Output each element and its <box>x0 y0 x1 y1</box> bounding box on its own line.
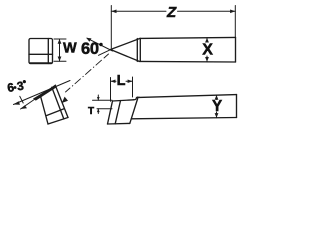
clearance angle line P2 <box>21 94 44 110</box>
rotated end view square <box>41 85 69 124</box>
rotated view inner divider near bottom <box>46 109 64 116</box>
top view tip top edge <box>113 100 134 101</box>
dimension Z arrow left <box>111 10 116 14</box>
clearance angle line P1 arrowhead <box>14 101 21 105</box>
side view tool point top edge <box>111 38 141 49</box>
dimension L line right part <box>126 80 133 82</box>
dimension L arrow right <box>128 80 133 84</box>
rotated view inner divider near right edge <box>52 87 64 119</box>
dimension T upper extension line <box>93 99 113 101</box>
side view grind line 1 <box>136 39 138 62</box>
top view tip left edge <box>108 101 113 124</box>
dimension T lower arrow line <box>97 109 99 114</box>
dimension L line left part <box>111 80 117 82</box>
top view tip inner grind line <box>115 101 120 124</box>
svg-text:X: X <box>202 41 213 58</box>
svg-text:Y: Y <box>212 98 222 115</box>
dimension L right extension line <box>132 77 134 97</box>
dimension Y arrow down <box>215 113 219 118</box>
dimension X vertical line upper <box>206 38 208 42</box>
dimension T upper arrow line <box>97 95 99 100</box>
dimension T lower extension line <box>97 108 112 110</box>
dimension X arrow up <box>205 38 209 43</box>
top view shank bottom edge <box>132 118 237 119</box>
top view tip right slant edge <box>130 98 138 124</box>
side view body top edge <box>140 37 236 38</box>
degree mark of 60 <box>99 43 102 46</box>
side view body right edge <box>235 37 237 62</box>
dimension W extension tick bottom <box>54 60 66 62</box>
dimension X arrow down <box>205 57 209 62</box>
end view inner horizontal divider <box>29 53 53 55</box>
dimension W extension tick top <box>54 38 66 40</box>
60 degree upper-left extension line with arrow <box>87 38 113 51</box>
dimension L arrow left <box>111 80 116 84</box>
svg-text:L: L <box>117 73 126 89</box>
top view shoulder hump <box>134 97 140 100</box>
dimension Y vertical line upper <box>216 95 218 100</box>
dimension Z left extension line <box>110 6 112 49</box>
dimension Z horizontal line left part <box>111 10 166 12</box>
clearance angle line P1 long <box>14 81 71 105</box>
top view tip bottom edge <box>108 122 130 125</box>
dimension Z arrow right <box>230 10 235 14</box>
top view shank top edge <box>140 95 237 98</box>
rotated view ground face black wedge <box>33 85 56 100</box>
dimension W vertical line <box>59 39 61 61</box>
centerline arrowhead at rotated view <box>62 97 68 103</box>
svg-text:T: T <box>88 106 94 117</box>
60 degree lower-left extension line <box>99 49 113 55</box>
centerline dash-dot from tool point to rotated view <box>66 54 109 92</box>
end view inner vertical divider <box>47 39 49 64</box>
dimension Y arrow up <box>215 95 219 100</box>
top view shank right edge <box>236 95 238 118</box>
side view grind line 2 <box>139 38 141 61</box>
dimension W arrow down <box>58 57 62 62</box>
svg-text:Z: Z <box>166 4 177 21</box>
dimension Z right extension line <box>234 6 236 38</box>
dimension L left extension line <box>110 78 112 102</box>
side view tool point bottom edge <box>111 50 140 62</box>
label 6-3 degrees <box>6 78 27 95</box>
side view body bottom edge <box>139 60 236 63</box>
end view square outline <box>29 39 53 64</box>
clearance angle line P2 arrowhead <box>21 105 28 109</box>
clearance angle arc tick <box>20 96 23 103</box>
svg-text:W: W <box>63 41 77 57</box>
svg-text:60: 60 <box>81 40 99 58</box>
dimension Y vertical line lower <box>216 112 218 118</box>
dimension Z horizontal line right part <box>178 10 236 12</box>
dimension X vertical line lower <box>206 56 208 62</box>
dimension W arrow up <box>58 39 62 44</box>
